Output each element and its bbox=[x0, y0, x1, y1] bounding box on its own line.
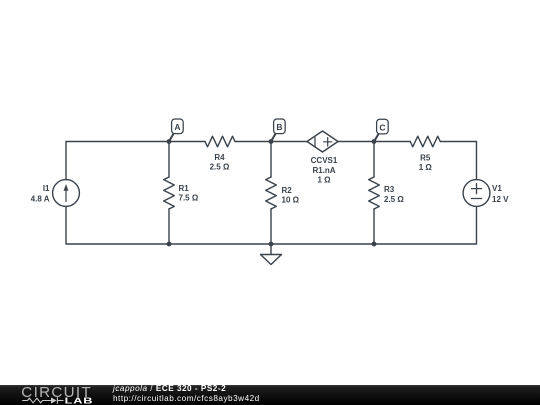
svg-text:LAB: LAB bbox=[65, 396, 94, 405]
current source I1 circle bbox=[53, 180, 80, 207]
footer bar bbox=[0, 385, 540, 405]
wire R2 column bottom bbox=[270, 209, 272, 244]
wire R1 column top bbox=[168, 142, 170, 178]
wire top-left from I1 column to node A bbox=[66, 142, 205, 180]
svg-text:CCVS1: CCVS1 bbox=[311, 156, 338, 165]
wire V1 bottom to bottom rail bbox=[66, 206, 477, 244]
junction ground / R2 bottom bbox=[269, 242, 274, 247]
svg-text:7.5 Ω: 7.5 Ω bbox=[179, 194, 199, 203]
svg-text:R1: R1 bbox=[179, 184, 190, 193]
svg-text:V1: V1 bbox=[492, 184, 502, 193]
svg-text:R5: R5 bbox=[420, 154, 431, 163]
CCVS1 dependent source diamond bbox=[307, 131, 338, 152]
junction R1 bottom bbox=[167, 242, 172, 247]
ground stem bbox=[270, 244, 272, 255]
resistor R2 bbox=[266, 177, 277, 209]
wire R3 column top bbox=[373, 142, 375, 178]
svg-text:R1.nA: R1.nA bbox=[312, 166, 335, 175]
resistor R5 bbox=[410, 136, 440, 147]
node C tag box bbox=[374, 119, 388, 141]
junction node B bbox=[269, 139, 274, 144]
CCVS1 minus bar bbox=[314, 137, 316, 146]
voltage source V1 circle bbox=[463, 180, 490, 207]
svg-text:10 Ω: 10 Ω bbox=[282, 196, 300, 205]
resistor R4 bbox=[205, 136, 235, 147]
svg-text:R3: R3 bbox=[384, 185, 395, 194]
node A tag box bbox=[169, 119, 183, 142]
V1 plus sign bbox=[471, 184, 481, 194]
junction node A bbox=[167, 139, 172, 144]
svg-text:1 Ω: 1 Ω bbox=[317, 176, 331, 185]
CCVS1 plus sign bbox=[324, 138, 332, 146]
wire R5 to V1 top bbox=[440, 142, 476, 180]
svg-text:2.5 Ω: 2.5 Ω bbox=[384, 195, 404, 204]
junction node C bbox=[372, 139, 377, 144]
svg-text:R4: R4 bbox=[214, 153, 225, 162]
ground triangle bbox=[261, 255, 282, 265]
svg-text:I1: I1 bbox=[43, 184, 50, 193]
wire R4 to CCVS1 bbox=[235, 141, 307, 143]
resistor R1 bbox=[164, 177, 175, 209]
svg-text:4.8 A: 4.8 A bbox=[31, 194, 50, 203]
svg-text:2.5 Ω: 2.5 Ω bbox=[210, 163, 230, 172]
svg-text:12 V: 12 V bbox=[492, 195, 509, 204]
I1 arrow bbox=[65, 189, 67, 202]
node B tag box bbox=[271, 119, 285, 142]
junction R3 bottom bbox=[372, 242, 377, 247]
svg-text:B: B bbox=[276, 122, 282, 132]
svg-text:A: A bbox=[174, 122, 180, 132]
wire R2 column top bbox=[270, 142, 272, 178]
svg-text:1 Ω: 1 Ω bbox=[419, 163, 433, 172]
resistor R3 bbox=[369, 177, 380, 209]
wire R1 column bottom bbox=[168, 209, 170, 244]
svg-text:R2: R2 bbox=[282, 186, 293, 195]
wire R3 column bottom bbox=[373, 209, 375, 244]
wire CCVS1 to R5 bbox=[338, 141, 410, 143]
V1 minus sign bbox=[471, 198, 481, 200]
svg-text:C: C bbox=[379, 123, 385, 133]
CircuitLab logo bbox=[0, 385, 110, 405]
I1 arrow head bbox=[64, 184, 69, 191]
footer text bbox=[113, 384, 260, 405]
